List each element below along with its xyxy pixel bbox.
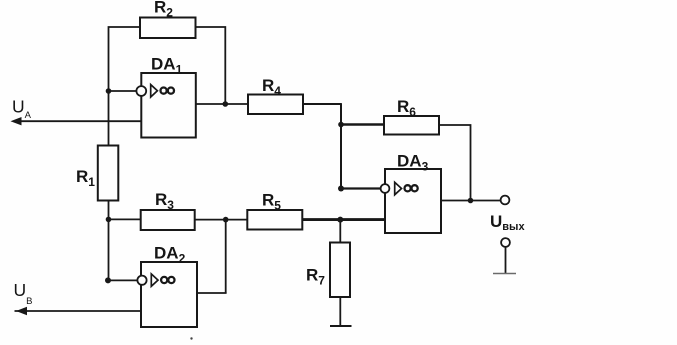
wire node D down to R7 [339, 220, 341, 243]
wire input Ub line with arrow [14, 280, 142, 315]
node B : R1/R3 junction [106, 217, 112, 223]
resistor R5 [247, 191, 302, 230]
svg-text:Uвых: Uвых [490, 212, 525, 233]
resistor R6 [384, 97, 439, 135]
noise speck [190, 337, 192, 339]
node C : DA2 output junction [223, 217, 229, 223]
wire node H to DA3 inverting input [341, 187, 381, 189]
svg-text:R6: R6 [397, 97, 416, 119]
node H : DA3 inverting input junction [338, 186, 344, 192]
node F : R2 feedback junction at DA1 output [223, 101, 229, 107]
svg-text:UB: UB [14, 280, 33, 307]
svg-text:DA3: DA3 [397, 152, 429, 174]
wire ground terminal lead [505, 247, 507, 274]
svg-text:R3: R3 [155, 190, 174, 212]
node G : R6 branch junction [338, 122, 344, 128]
ground R7 [330, 325, 352, 327]
wire DA1 output to R4 [196, 103, 248, 105]
resistor R1 [76, 146, 118, 201]
wire R7 bottom lead [339, 297, 341, 326]
wire DA3 output [441, 200, 501, 202]
svg-text:R7: R7 [306, 266, 325, 288]
wire R2 right lead down to DA1 output [196, 26, 226, 104]
node D : R7 junction [337, 217, 343, 223]
wire DA2 output lead [197, 292, 227, 294]
svg-text:R5: R5 [262, 191, 281, 213]
svg-text:DA2: DA2 [154, 244, 186, 266]
svg-text:R1: R1 [76, 167, 95, 189]
wire node A down to R1 [108, 91, 110, 146]
wire node A to DA1 inverting input [109, 90, 137, 92]
op-amp DA2 [137, 244, 197, 328]
op-amp DA1 [136, 55, 195, 138]
svg-text:DA1: DA1 [151, 55, 183, 77]
wire node E to DA2 inverting input [108, 279, 138, 281]
node J : feedback junction at DA3 output [468, 198, 474, 204]
wire R1 bottom down to DA2 input node [108, 201, 110, 281]
wire R5 to DA3 lower input [302, 218, 385, 221]
terminal ground reference [501, 238, 510, 247]
wire R4 output over and down [303, 103, 341, 188]
terminal Uout [490, 196, 525, 233]
svg-text:UA: UA [12, 97, 32, 122]
wire input Ua line with arrow [11, 97, 142, 126]
resistor R3 [141, 190, 195, 230]
svg-text:R4: R4 [262, 76, 281, 98]
wire node B to R3 [109, 218, 141, 220]
wire R3 to R5 [195, 219, 248, 221]
ground output [493, 273, 516, 275]
op-amp DA3 [381, 152, 441, 234]
wire node C down to DA2 output [225, 220, 227, 293]
wire R6 right lead down to output node [439, 124, 471, 200]
node E : DA2 inverting input junction [105, 277, 111, 283]
resistor R4 [248, 76, 303, 114]
resistor R2 [140, 0, 196, 38]
node A : DA1 inverting input junction [106, 88, 112, 94]
wire node G to R6 [341, 123, 384, 126]
resistor R7 [306, 243, 350, 298]
wire R2 left lead from node A up and over [109, 26, 141, 91]
